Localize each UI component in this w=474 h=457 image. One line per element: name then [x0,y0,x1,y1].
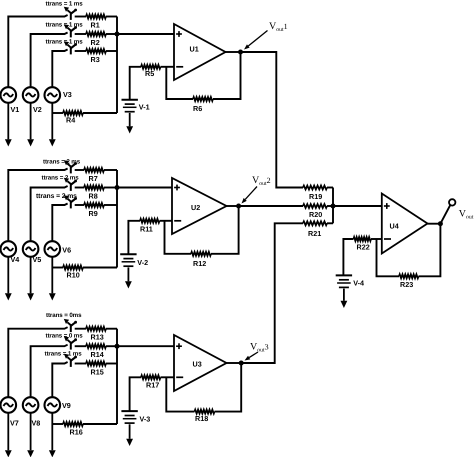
svg-text:V2: V2 [33,105,42,114]
wire switch to R14 [75,345,86,347]
svg-text:R21: R21 [308,229,321,238]
switch S7 (tClose) [70,166,72,174]
wire to output terminal [440,205,450,224]
resistor R11 [140,219,160,223]
wire summing vertical U3 [116,329,118,424]
AC source V6 [45,241,61,257]
svg-text:R17: R17 [146,381,159,390]
wire U1 input 2 left [31,33,68,88]
ground arrow under V8 [30,413,32,450]
resistor R17 [141,375,161,379]
svg-text:V1: V1 [11,105,20,114]
arrow Vout1 [248,31,267,47]
wire junction to U3 + input [117,345,174,347]
svg-text:R16: R16 [70,428,83,437]
node U4 noninverting junction [331,204,336,209]
wire R5 to U1 - input [161,66,175,68]
wire switch to R13 [75,328,86,330]
wire switch to R2 [75,33,86,35]
ground arrow under V-2 [127,267,129,281]
resistor R20 [303,204,327,208]
ground arrow under V-3 [129,424,131,439]
node U3 noninverting junction [115,344,120,349]
resistor R5 [141,65,161,69]
ground arrow under V5 [30,257,32,294]
svg-text:R9: R9 [89,209,98,218]
resistor R12 [191,252,211,256]
svg-text:R6: R6 [193,104,202,113]
wire U4 summing vertical [332,188,334,224]
svg-text:R15: R15 [91,367,104,376]
resistor R23 [399,274,419,278]
arrow Vout2 [245,187,257,200]
wire Vout1 to R19 [241,52,304,188]
svg-text:ttrans = 0ms: ttrans = 0ms [46,312,82,319]
wire R16 to summing node [83,423,117,425]
svg-text:ttrans = 2 ms: ttrans = 2 ms [42,175,80,182]
svg-text:R1: R1 [91,20,100,29]
wire junction to U2 + input [117,187,172,189]
op-amp U3 [174,335,227,391]
resistor R7 [84,168,104,172]
switch S9 (tClose) [70,201,72,209]
svg-text:R13: R13 [91,333,104,342]
wire Vout3 to R21 [241,223,303,363]
wire R14 to summing node [106,345,117,347]
resistor R6 [193,97,213,101]
wire R15 to summing node [106,363,117,365]
switch S3 (tClose) [70,47,72,55]
wire U3 output [227,362,242,364]
svg-text:R3: R3 [91,55,100,64]
wire U2 output [227,205,239,207]
wire R13 to summing node [106,328,117,330]
resistor R14 [86,344,106,348]
wire U1 feedback left [166,67,193,99]
wire R9 to summing node [104,204,117,206]
svg-text:ttrans = 2 ms: ttrans = 2 ms [36,193,77,200]
resistor R4 [63,111,83,115]
wire summing vertical U2 [116,170,118,268]
svg-text:R23: R23 [400,280,413,289]
arrow Vout3 [249,352,258,358]
wire R22 to U4 - input [371,238,382,240]
wire R3 to summing node [106,50,117,52]
wire battery to R11 [128,221,140,254]
wire V3 to R4 [52,112,63,114]
wire summing vertical U1 [116,17,118,114]
node U4 output [438,221,443,226]
wire R11 to U2 - input [160,220,173,222]
svg-text:R2: R2 [91,38,100,47]
wire switch to R1 [75,16,86,18]
wire R7 to summing node [104,169,117,171]
svg-text:V-1: V-1 [139,103,150,112]
op-amp U2 [172,178,227,234]
ground arrow under V2 [30,103,32,140]
resistor R21 [303,221,327,225]
wire U3 feedback left [166,377,194,411]
AC source V2 [23,87,39,103]
wire U1 input 1 left [8,15,67,87]
wire R19 to U4 node [327,187,333,189]
AC source V5 [23,241,39,257]
svg-text:V-4: V-4 [353,279,364,288]
svg-text:U1: U1 [190,45,199,54]
wire U1 input 3 left [52,50,67,88]
svg-text:R12: R12 [193,259,206,268]
svg-text:R19: R19 [309,192,322,201]
resistor R16 [63,422,83,426]
ground arrow under V7 [7,413,9,450]
resistor R8 [84,186,104,190]
switch S15 (tClose) [70,359,72,367]
terminal Vout [449,199,455,205]
battery V-1 [122,99,138,101]
wire U2 feedback left [165,221,192,254]
node U2 noninverting junction [115,185,120,190]
wire R20 to U4 node [327,205,333,207]
AC source V9 [45,397,61,413]
wire battery to R17 [130,377,141,411]
wire R2 to summing node [106,33,117,35]
AC source V7 [1,397,17,413]
wire R21 to U4 node [327,222,333,224]
wire switch to R15 [75,363,86,365]
ground arrow under V-1 [129,113,131,126]
wire R12 to output [211,206,239,254]
svg-text:V3: V3 [63,90,72,99]
battery V-3 [121,410,137,412]
switch S13 (tClose) [70,324,72,332]
ground arrow under V4 [7,257,9,294]
switch S14 (tClose) [70,342,72,350]
wire junction to U1 + input [117,33,174,35]
wire U3 input 2 left [31,345,68,398]
wire battery to R5 [130,67,141,100]
wire U2 input 1 left [8,169,67,242]
svg-text:R11: R11 [140,225,153,234]
switch S2 (tClose) [70,30,72,38]
wire switch to R8 [75,187,84,189]
svg-text:R8: R8 [89,191,98,200]
wire R10 to summing node [83,267,117,269]
wire Vout2 to R20 [239,205,303,207]
wire R8 to summing node [104,187,117,189]
svg-text:V6: V6 [62,246,71,255]
svg-text:V-3: V-3 [140,414,151,423]
wire R17 to U3 - input [161,376,175,378]
svg-text:R18: R18 [195,414,208,423]
svg-text:ttrans = 0 ms: ttrans = 0 ms [46,333,84,340]
resistor R18 [195,410,215,414]
svg-text:U2: U2 [191,203,200,212]
AC source V1 [1,87,17,103]
svg-text:V-2: V-2 [137,258,148,267]
wire R18 to output [215,363,242,412]
resistor R19 [303,186,327,190]
wire U4 feedback left [377,239,400,276]
svg-text:V5: V5 [33,255,42,264]
wire R6 to output [213,52,241,99]
wire U3 input 1 left [8,327,67,397]
resistor R1 [86,15,106,19]
svg-text:V4: V4 [11,255,20,264]
battery V-4 [336,274,352,276]
wire U2 input 3 left [52,204,67,242]
resistor R13 [86,327,106,331]
resistor R10 [63,266,83,270]
svg-text:R22: R22 [357,243,370,252]
op-amp U4 [382,194,428,254]
resistor R22 [354,237,372,241]
wire R23 to U4 output [419,224,441,277]
resistor R9 [84,203,104,207]
node Vout2 [236,204,241,209]
wire R1 to summing node [106,16,117,18]
svg-text:R14: R14 [91,350,104,359]
svg-text:ttrans = 1 ms: ttrans = 1 ms [46,1,84,8]
resistor R3 [86,49,106,53]
svg-text:U3: U3 [193,360,202,369]
switch S8 (tClose) [70,183,72,191]
battery V-2 [120,253,136,255]
wire U2 input 2 left [31,186,68,241]
ground arrow under V3 [51,103,53,140]
svg-text:R4: R4 [66,116,75,125]
wire switch to R9 [75,204,84,206]
svg-text:V7: V7 [10,419,19,428]
wire V9 to R16 [52,423,63,425]
node Vout3 [239,361,244,366]
ground arrow under V9 [51,413,53,450]
switch S1 (tClose) [70,12,72,20]
wire V6 to R10 [52,267,63,269]
resistor R2 [86,32,106,36]
wire switch to R7 [75,169,84,171]
wire R4 to summing node [83,112,117,114]
svg-text:U4: U4 [390,222,399,231]
node U1 noninverting junction [115,32,120,37]
svg-text:R5: R5 [145,69,154,78]
wire U3 input 3 left [52,362,67,397]
wire switch to R3 [75,50,86,52]
wire U1 output [226,51,241,53]
ground arrow under V-4 [343,289,345,301]
svg-text:R10: R10 [67,271,80,280]
wire junction to U4 + input [333,205,382,207]
svg-text:R7: R7 [89,174,98,183]
AC source V3 [45,87,61,103]
ground arrow under V6 [51,257,53,294]
wire battery V-4 to R22 [343,239,353,275]
node Vout1 [238,50,243,55]
AC source V4 [1,241,17,257]
op-amp U1 [174,24,226,80]
svg-text:V8: V8 [32,419,41,428]
AC source V8 [23,397,39,413]
resistor R15 [86,362,106,366]
svg-text:R20: R20 [309,210,322,219]
ground arrow under V1 [7,103,9,140]
wire U4 output [428,223,441,225]
svg-text:V9: V9 [62,401,71,410]
